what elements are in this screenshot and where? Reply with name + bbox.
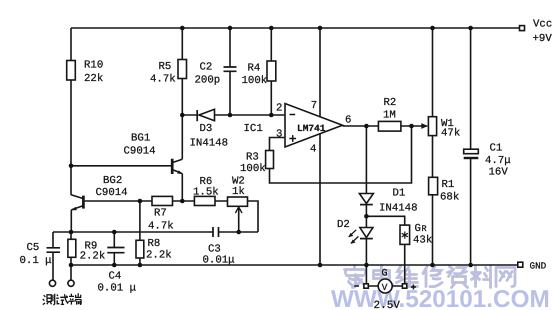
svg-text:BG2: BG2 xyxy=(103,175,122,187)
svg-text:D1: D1 xyxy=(393,188,406,200)
svg-text:Vcc: Vcc xyxy=(533,19,552,31)
svg-text:2: 2 xyxy=(276,103,282,115)
svg-text:R10: R10 xyxy=(84,60,103,72)
svg-text:G: G xyxy=(382,269,388,280)
svg-text:GND: GND xyxy=(530,261,547,272)
svg-text:4.7k: 4.7k xyxy=(148,221,174,233)
svg-text:22k: 22k xyxy=(84,73,103,85)
svg-text:2.2k: 2.2k xyxy=(80,251,106,263)
svg-text:R2: R2 xyxy=(384,97,397,109)
svg-text:100k: 100k xyxy=(242,75,268,87)
svg-text:16V: 16V xyxy=(489,167,509,179)
svg-text:1k: 1k xyxy=(232,186,245,198)
svg-text:C1: C1 xyxy=(490,143,503,155)
svg-text:200p: 200p xyxy=(195,75,221,87)
svg-text:V: V xyxy=(382,282,388,293)
svg-text:1M: 1M xyxy=(383,110,396,122)
svg-text:4.7k: 4.7k xyxy=(150,74,176,86)
svg-text:C5: C5 xyxy=(27,242,40,254)
svg-text:D3: D3 xyxy=(200,123,213,135)
svg-text:C9014: C9014 xyxy=(124,146,156,158)
svg-text:7: 7 xyxy=(311,100,317,112)
svg-text:C2: C2 xyxy=(200,62,213,74)
svg-text:6: 6 xyxy=(345,115,351,127)
svg-text:R5: R5 xyxy=(159,61,172,73)
svg-text:3: 3 xyxy=(276,129,282,141)
svg-text:R3: R3 xyxy=(246,152,259,164)
svg-text:1.5k: 1.5k xyxy=(193,187,219,199)
svg-text:WWW.520101.COM: WWW.520101.COM xyxy=(331,286,550,310)
svg-text:D2: D2 xyxy=(337,219,350,231)
svg-text:R7: R7 xyxy=(154,208,167,220)
svg-text:68k: 68k xyxy=(440,192,459,204)
svg-text:100k: 100k xyxy=(240,163,266,175)
svg-text:0.01μ: 0.01μ xyxy=(203,254,235,266)
svg-text:2.2k: 2.2k xyxy=(146,250,172,262)
svg-text:C9014: C9014 xyxy=(96,187,128,199)
svg-text:R: R xyxy=(422,224,427,234)
svg-text:IN4148: IN4148 xyxy=(190,138,228,150)
svg-text:0.1 μ: 0.1 μ xyxy=(20,255,52,267)
svg-text:BG1: BG1 xyxy=(131,133,150,145)
svg-text:C4: C4 xyxy=(109,271,122,283)
svg-text:G: G xyxy=(415,223,421,235)
svg-text:43k: 43k xyxy=(413,235,432,247)
svg-text:47k: 47k xyxy=(441,128,460,140)
svg-text:2.5V: 2.5V xyxy=(374,300,401,310)
svg-text:+9V: +9V xyxy=(533,33,553,45)
svg-text:LM741: LM741 xyxy=(297,123,326,134)
svg-text:4.7μ: 4.7μ xyxy=(485,155,511,167)
svg-text:IN4148: IN4148 xyxy=(379,203,417,215)
svg-text:R8: R8 xyxy=(148,238,161,250)
svg-text:IC1: IC1 xyxy=(244,123,263,135)
svg-text:R1: R1 xyxy=(442,179,455,191)
svg-text:0.01 μ: 0.01 μ xyxy=(98,283,136,295)
svg-text:R4: R4 xyxy=(248,63,261,75)
svg-text:4: 4 xyxy=(310,144,316,156)
